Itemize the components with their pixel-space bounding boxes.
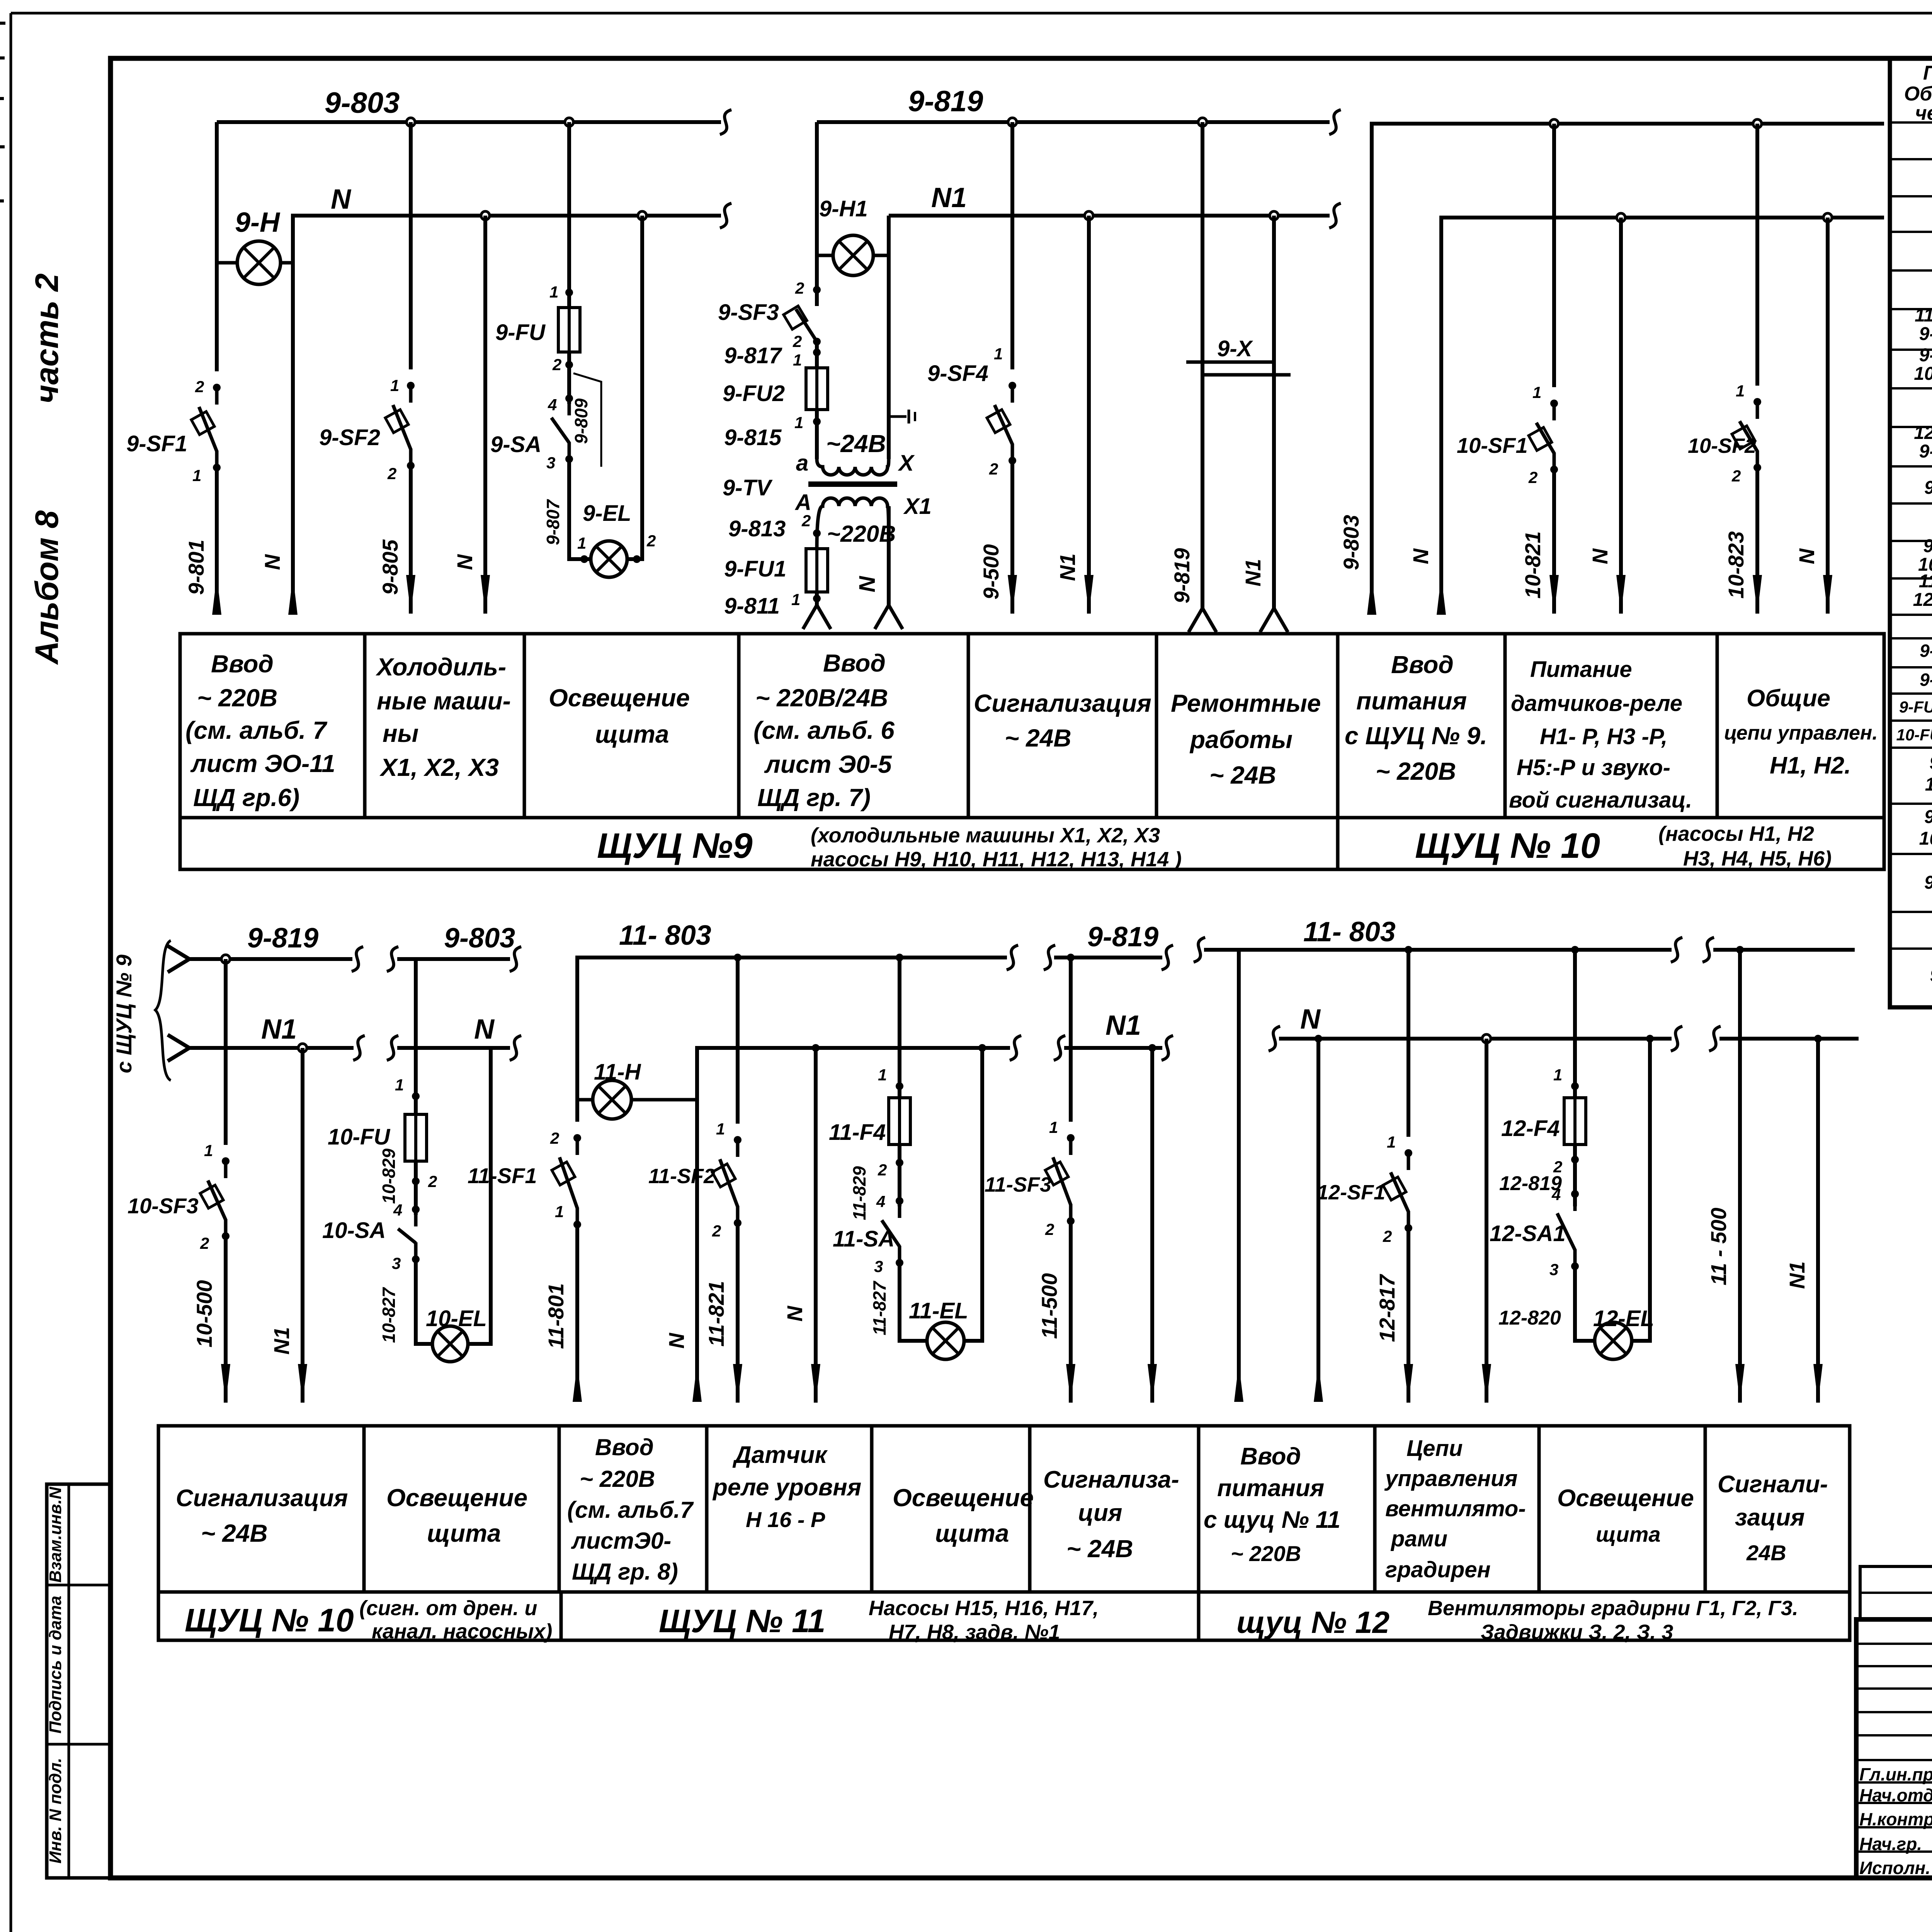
svg-text:3: 3 (392, 1254, 401, 1272)
svg-text:N: N (782, 1305, 807, 1321)
arrow down N2 (481, 575, 490, 614)
component table row line y=1105 (1890, 426, 1932, 428)
wire 12-817 to arrow (1406, 1228, 1410, 1403)
svg-text:~220В: ~220В (827, 521, 896, 547)
svg-text:10-SA: 10-SA (322, 1218, 386, 1243)
svg-text:~ 24В: ~ 24В (1209, 761, 1276, 789)
svg-text:10-SF2: 10-SF2 (1688, 434, 1756, 457)
svg-text:10-FU: 10-FU (328, 1124, 391, 1150)
component table row line y=1303 (1890, 502, 1932, 505)
svg-text:2: 2 (878, 1161, 887, 1179)
wire F4 to SA 12 (1573, 1145, 1577, 1206)
component table row line y=1795 (1890, 692, 1932, 695)
wire FU2 to winding (815, 410, 819, 459)
wire feed 11-803 drop (1237, 950, 1241, 1401)
pin dot 9-FU1 top (813, 529, 821, 537)
bus N (shchuc9) (293, 216, 721, 263)
wire 9-500 drop (1010, 122, 1014, 369)
node on bus at 4548 (1753, 119, 1762, 128)
svg-text:1: 1 (793, 351, 802, 369)
wire 10-500 to arrow (224, 1236, 228, 1403)
svg-text:11-SF3: 11-SF3 (985, 1173, 1051, 1196)
svg-text:ЩД гр.6): ЩД гр.6) (193, 784, 299, 811)
svg-text:9-ЕL: 9-ЕL (583, 501, 631, 526)
component table row line y=2210 (1890, 853, 1932, 855)
title block left row y=4555 (1856, 1759, 1932, 1761)
svg-text:питания: питания (1217, 1475, 1324, 1502)
wire N1 row2 drop (301, 1048, 304, 1403)
svg-text:N: N (1300, 1004, 1321, 1035)
svg-text:ЩУЦ №9: ЩУЦ №9 (597, 826, 753, 866)
node 11-803 at 2328 (896, 954, 903, 961)
lower table divider x=2256 (870, 1426, 874, 1592)
bus 9-819 row2 (189, 957, 352, 961)
svg-text:канал. насосных): канал. насосных) (372, 1620, 552, 1643)
arrow down 11-500 stub (1735, 1364, 1745, 1403)
svg-text:3: 3 (874, 1257, 883, 1276)
svg-text:9-FU2: 9-FU2 (723, 381, 785, 406)
svg-text:2: 2 (550, 1129, 559, 1147)
fork 9-819 bottom (1189, 608, 1202, 632)
svg-text:Задвижки З. 2, З. 3: Задвижки З. 2, З. 3 (1481, 1621, 1673, 1644)
upper table divider x=3462 (1336, 634, 1340, 818)
wire feed N drop (1316, 1039, 1320, 1401)
svg-text:1: 1 (716, 1120, 725, 1138)
svg-text:(насосы Н1, Н2: (насосы Н1, Н2 (1658, 822, 1814, 845)
lower table divider x=3558 (1373, 1426, 1377, 1592)
wire to lamp 11-EL (900, 1263, 927, 1341)
svg-text:9-500: 9-500 (979, 544, 1003, 599)
svg-text:(сигн. от дрен. и: (сигн. от дрен. и (359, 1597, 537, 1620)
bus N row2e (1279, 1037, 1672, 1041)
pin dot 12-SA1 4 (1571, 1190, 1579, 1198)
svg-text:Цепи: Цепи (1406, 1436, 1463, 1461)
svg-text:1: 1 (794, 413, 803, 432)
transformer 9-TV primary winding (817, 498, 889, 549)
node on N at 1256 (481, 211, 490, 220)
component table row line y=1935 (1890, 747, 1932, 749)
fork from SHCHUC9 bottom (168, 1035, 189, 1048)
bus 9-803 row2 (397, 957, 510, 961)
wire 9-805 to arrow (409, 466, 413, 614)
upper label table frame (180, 634, 1884, 869)
svg-text:N1: N1 (1241, 559, 1265, 587)
wire 9-FU top (567, 122, 571, 308)
svg-text:1: 1 (1532, 383, 1541, 401)
svg-text:Н3, Н4, Н5, Н6): Н3, Н4, Н5, Н6) (1683, 847, 1832, 870)
svg-text:с ЩУЦ № 9: с ЩУЦ № 9 (112, 954, 136, 1073)
svg-text:Освещение: Освещение (893, 1484, 1034, 1512)
fuse 9-FU (558, 308, 580, 352)
wire 11-500 to arrow (1069, 1221, 1073, 1403)
svg-text:10-SF1: 10-SF1 (1457, 433, 1528, 457)
pin dot 9-FU 1 (565, 289, 573, 296)
upper table divider x=4444 (1716, 634, 1719, 818)
svg-text:9-811: 9-811 (724, 594, 780, 619)
component table row line y=1400 (1890, 540, 1932, 542)
svg-text:12-820: 12-820 (1498, 1307, 1561, 1329)
wire 9-801 drop (215, 122, 219, 371)
transformer 9-TV core (808, 481, 897, 487)
bus 9-819 (817, 120, 1330, 124)
svg-text:9-SF2: 9-SF2 (1919, 441, 1932, 462)
svg-text:Н7, Н8, задв. №1: Н7, Н8, задв. №1 (889, 1621, 1060, 1644)
lower table divider x=1447 (558, 1426, 561, 1592)
svg-text:2: 2 (646, 532, 656, 550)
switch 9-SA (568, 398, 571, 415)
component table row line y=1652 (1890, 637, 1932, 639)
component table row line y=1207 (1890, 465, 1932, 468)
svg-text:9-801: 9-801 (184, 539, 208, 595)
wire 11-801 to arrow (575, 1225, 579, 1401)
svg-text:a: a (796, 451, 808, 476)
title block left row y=4431 (1856, 1711, 1932, 1713)
svg-text:1: 1 (192, 466, 201, 485)
wire 10-821 to arrow (1552, 469, 1556, 614)
arrow up feed N (1314, 1363, 1323, 1402)
pin dot 12-F4 2 (1571, 1156, 1579, 1163)
svg-text:11- 803: 11- 803 (619, 920, 711, 951)
svg-text:вентилято-: вентилято- (1385, 1496, 1526, 1521)
pin dot 10-FU 1 (412, 1092, 420, 1100)
breaker 11-SF2 (736, 1139, 740, 1157)
svg-text:Нач.отд.: Нач.отд. (1859, 1785, 1932, 1805)
wire 9-801 to arrow (215, 468, 219, 611)
bus stub N1 (1719, 1037, 1859, 1041)
pin dot 9-SF3 bottom (813, 338, 821, 345)
svg-text:с щуц № 11: с щуц № 11 (1204, 1507, 1340, 1533)
svg-text:9-FU,11-FU,: 9-FU,11-FU, (1899, 698, 1932, 716)
arrow down N1 col5 (1084, 575, 1094, 614)
wire N2 drop (483, 216, 487, 614)
wire 9-805 drop (409, 122, 413, 369)
arrow down N1 row2 (298, 1364, 307, 1403)
lower table divider x=1829 (705, 1426, 709, 1592)
svg-text:9-SF1: 9-SF1 (1919, 324, 1932, 344)
svg-text:9-TV: 9-TV (1924, 478, 1932, 498)
lower table strip divider 2 (1197, 1592, 1201, 1640)
breaker 11-SF1 (576, 1137, 579, 1155)
pin dot 12-F4 1 (1571, 1082, 1579, 1090)
component table row line y=600 (1890, 231, 1932, 233)
svg-text:9-SF4: 9-SF4 (927, 361, 988, 386)
svg-text:Н1- Р, Н3 -Р,: Н1- Р, Н3 -Р, (1540, 724, 1667, 749)
title block left row y=4312 (1856, 1665, 1932, 1667)
component table row line y=1727 (1890, 666, 1932, 668)
wire to lamp 9-EL (569, 459, 591, 559)
svg-text:ные маши-: ные маши- (377, 687, 511, 715)
lower table strip divider 1 (560, 1592, 563, 1640)
lower label table frame (158, 1426, 1850, 1640)
svg-text:9-ЕL: 9-ЕL (1924, 807, 1932, 827)
svg-text:9-SA: 9-SA (490, 432, 541, 457)
svg-text:11-SA: 11-SA (833, 1226, 895, 1252)
upper table divider x=3895 (1503, 634, 1507, 818)
svg-text:9-817: 9-817 (724, 343, 782, 368)
svg-text:11-829: 11-829 (849, 1166, 869, 1220)
svg-text:Освещение: Освещение (1557, 1485, 1694, 1512)
svg-text:12-SF1: 12-SF1 (1914, 423, 1932, 443)
transformer 9-TV secondary winding (817, 459, 889, 475)
wire lamp10 to N (468, 1048, 491, 1344)
svg-text:1: 1 (1387, 1133, 1396, 1151)
bus 11-803 row2 (577, 957, 1007, 1100)
arrow down N col9 (1823, 575, 1832, 614)
svg-text:2: 2 (200, 1234, 209, 1252)
node on bus at 4022 (1550, 119, 1558, 128)
upper table divider x=2506 (967, 634, 970, 818)
svg-text:1: 1 (395, 1076, 404, 1094)
breaker 9-SF3 blade (815, 290, 819, 298)
arrow down 11-500 (1066, 1364, 1075, 1403)
pin dot 9-FU2 bottom (813, 418, 821, 425)
svg-text:12-SF1: 12-SF1 (1317, 1181, 1385, 1204)
svg-text:10-EL: 10-EL (426, 1306, 487, 1331)
page border (11, 12, 1932, 15)
wire lamp to N (627, 216, 642, 559)
svg-text:9-SF3: 9-SF3 (718, 300, 779, 325)
wire 10-500 drop (224, 959, 228, 1145)
svg-text:Н1, Н2.: Н1, Н2. (1770, 752, 1851, 779)
svg-text:11- 803: 11- 803 (1303, 917, 1396, 947)
arrow down 10-823 (1753, 575, 1762, 614)
upper table strip divider (1336, 818, 1340, 869)
lamp 10-EL (432, 1326, 468, 1362)
component table row line y=700 (1890, 269, 1932, 272)
node 11-803 at 1909 (734, 954, 742, 961)
fuse 12-F4 (1564, 1098, 1586, 1145)
node N1 row2 (298, 1044, 307, 1052)
svg-text:N1: N1 (261, 1014, 297, 1045)
lamp 11-EL (927, 1322, 964, 1359)
svg-text:N1: N1 (1105, 1010, 1141, 1041)
svg-text:11-827: 11-827 (869, 1281, 889, 1335)
fork N1 bottom (1260, 608, 1274, 632)
svg-text:Холодиль-: Холодиль- (376, 653, 506, 681)
svg-text:1: 1 (1553, 1066, 1562, 1084)
svg-text:N: N (1408, 548, 1433, 564)
svg-text:9-H: 9-H (235, 207, 281, 238)
svg-text:~ 24В: ~ 24В (1005, 724, 1071, 752)
svg-text:Подпись и дата: Подпись и дата (46, 1596, 65, 1734)
svg-text:3: 3 (546, 454, 555, 472)
wire 9-H1 to SF3 (815, 255, 819, 306)
svg-text:9-FU2: 9-FU2 (1920, 670, 1932, 690)
svg-text:1: 1 (390, 376, 399, 395)
wire 12-817 drop (1406, 950, 1410, 1137)
wire 11-821 drop (736, 957, 740, 1124)
node on 9-803 at 1473 (565, 118, 573, 126)
breaker 9-SF2 (409, 385, 413, 403)
svg-text:Гл.ин.пр: Гл.ин.пр (1859, 1764, 1932, 1784)
svg-text:9-SF1: 9-SF1 (126, 431, 187, 456)
svg-text:10-SF1: 10-SF1 (1914, 364, 1932, 384)
small box above title block (1860, 1566, 1932, 1619)
breaker 10-SF2 (1756, 401, 1759, 419)
wire lamp12 to N (1632, 1039, 1650, 1341)
bus N row2 (397, 1046, 510, 1050)
wire 10-FU drop (414, 959, 418, 1114)
svg-text:N1: N1 (1785, 1261, 1809, 1289)
arrow up 9-803 right (1367, 576, 1376, 615)
svg-text:ЩУЦ № 10: ЩУЦ № 10 (1415, 826, 1600, 866)
svg-text:X: X (898, 451, 915, 476)
node on N1 at 2818 (1085, 211, 1093, 220)
upper table divider x=944 (363, 634, 367, 818)
upper table divider x=1912 (737, 634, 741, 818)
svg-text:9-803: 9-803 (1339, 515, 1363, 570)
lamp 9-EL (591, 541, 627, 577)
svg-text:Сигнализация: Сигнализация (974, 689, 1151, 717)
bus 11-803 row2e (1204, 948, 1672, 952)
breaker 11-SF3 (1069, 1137, 1073, 1155)
node 11-803e 4076 (1571, 946, 1579, 954)
svg-text:датчиков-реле: датчиков-реле (1511, 691, 1682, 716)
arrow down Ne (1482, 1364, 1491, 1403)
svg-text:~ 220В: ~ 220В (1376, 757, 1456, 785)
wire 10-823 drop (1755, 124, 1759, 386)
svg-text:N1: N1 (931, 182, 967, 213)
bus N1 row2 (189, 1046, 354, 1050)
node 11-803e 3645 (1405, 946, 1412, 954)
lamp 9-H1 (833, 235, 873, 276)
svg-text:9-H1: 9-H1 (819, 196, 868, 221)
node Ne 4270 (1646, 1035, 1654, 1043)
node on N at 1662 (638, 211, 646, 220)
svg-text:(см. альб. 7: (см. альб. 7 (185, 716, 328, 744)
svg-text:9-Х: 9-Х (1930, 965, 1932, 986)
svg-text:N: N (855, 576, 880, 592)
svg-text:1: 1 (204, 1141, 213, 1160)
wire lamp11 to N (964, 1048, 982, 1341)
upper table divider x=1357 (523, 634, 526, 818)
scan edge marks (0, 22, 5, 25)
pin dot 10-FU 2 (412, 1177, 420, 1185)
fuse 11-F4 (889, 1098, 910, 1145)
pin dot 9-FU2 top (813, 349, 821, 356)
svg-text:управления: управления (1384, 1466, 1518, 1491)
lower table divider x=3983 (1537, 1426, 1541, 1592)
svg-text:~ 220В/24В: ~ 220В/24В (755, 684, 888, 712)
wire 9-500 to arrow (1010, 461, 1014, 614)
svg-text:11-SF1: 11-SF1 (468, 1163, 537, 1188)
wire Ne drop (1485, 1039, 1488, 1403)
svg-text:9-803: 9-803 (325, 87, 400, 119)
svg-text:9-TV: 9-TV (723, 475, 773, 500)
title block left row y=4613 (1856, 1781, 1932, 1784)
svg-text:10-823: 10-823 (1724, 531, 1748, 599)
component table row line y=1005 (1890, 387, 1932, 389)
arrow up N right (1437, 576, 1446, 615)
svg-text:1: 1 (555, 1202, 564, 1221)
svg-text:9-FU1: 9-FU1 (1920, 641, 1932, 661)
wire FU to SA 10 (414, 1161, 418, 1215)
svg-text:щита: щита (935, 1519, 1009, 1547)
svg-text:2: 2 (793, 332, 802, 350)
switch 10-SA (414, 1209, 418, 1226)
svg-text:10-829: 10-829 (379, 1148, 399, 1204)
svg-text:10-827: 10-827 (379, 1287, 399, 1343)
lamp 12-EL (1595, 1322, 1632, 1359)
svg-text:Х1, Х2, Х3: Х1, Х2, Х3 (379, 753, 499, 781)
arrow down N1 stub (1813, 1364, 1823, 1403)
svg-text:11-500: 11-500 (1037, 1273, 1061, 1339)
svg-text:щуц № 12: щуц № 12 (1236, 1605, 1389, 1639)
pin dot 11-SA 4 (896, 1197, 903, 1205)
svg-text:зация: зация (1735, 1504, 1805, 1531)
component table row line y=412 (1890, 158, 1932, 160)
svg-text:2: 2 (1045, 1220, 1054, 1238)
svg-text:3: 3 (1549, 1260, 1558, 1279)
bus 9-819 row2d (1054, 956, 1162, 959)
pin dot 9-FU1 bottom (813, 595, 821, 602)
arrow down 10-821 (1549, 575, 1559, 614)
component table row line y=2360 (1890, 911, 1932, 913)
bus stub 11-500 (1713, 948, 1855, 952)
bus N row2c (697, 1048, 1010, 1100)
svg-text:11-801: 11-801 (544, 1283, 568, 1349)
svg-text:Н 16 - Р: Н 16 - Р (746, 1507, 825, 1532)
node on 9-819 at 3112 (1198, 118, 1207, 126)
arrow up 11-801 (573, 1363, 582, 1402)
component table row line y=317 (1890, 121, 1932, 124)
svg-text:11 - 500: 11 - 500 (1706, 1207, 1731, 1285)
bus N1 (shchuc9) (889, 214, 1330, 218)
node N at 2111 (812, 1044, 820, 1052)
fork N1 (875, 605, 889, 629)
component table row line y=2080 (1890, 803, 1932, 805)
wire fuse to SA (567, 352, 571, 404)
component table row line y=1497 (1890, 577, 1932, 580)
svg-text:ЩУЦ № 11: ЩУЦ № 11 (659, 1603, 825, 1639)
svg-text:10-SF3: 10-SF3 (128, 1194, 199, 1218)
svg-text:Ремонтные: Ремонтные (1171, 689, 1321, 717)
svg-text:с ЩУЦ № 9.: с ЩУЦ № 9. (1345, 722, 1487, 750)
svg-text:Поз.: Поз. (1923, 62, 1932, 84)
arrow down 11-821 (733, 1364, 742, 1403)
svg-text:Ввод: Ввод (211, 650, 274, 678)
component table frame (1890, 58, 1932, 1007)
svg-text:градирен: градирен (1385, 1557, 1491, 1582)
svg-text:Общие: Общие (1747, 685, 1830, 712)
wire to fork left (815, 592, 819, 605)
svg-text:щита: щита (427, 1519, 501, 1547)
arrow down N col8 (1616, 575, 1626, 614)
svg-text:12-817: 12-817 (1375, 1274, 1399, 1342)
svg-text:12-F4: 12-F4 (1501, 1116, 1560, 1141)
socket 9-X (1186, 361, 1274, 364)
svg-text:9-803: 9-803 (444, 923, 515, 954)
wire N1 down to fork (887, 506, 891, 605)
svg-text:9-819: 9-819 (908, 85, 983, 118)
wire N col8 drop (1619, 218, 1623, 614)
wire N1 corner drop (887, 216, 891, 255)
svg-text:11-SF2: 11-SF2 (648, 1165, 715, 1188)
svg-text:Сигнали-: Сигнали- (1718, 1471, 1828, 1498)
svg-text:лист Э0-5: лист Э0-5 (764, 750, 892, 778)
svg-text:9-Н: 9-Н (1929, 753, 1932, 773)
arrow down 12-817 (1404, 1364, 1413, 1403)
svg-text:24В: 24В (1746, 1541, 1786, 1565)
svg-text:Исполн.: Исполн. (1859, 1858, 1930, 1878)
breaker 12-SF1 (1407, 1152, 1410, 1170)
svg-text:9-819: 9-819 (1170, 548, 1194, 603)
wire N c drop (695, 1100, 699, 1401)
wire N1 to fork (1272, 216, 1276, 608)
lamp 11-H (593, 1080, 631, 1119)
svg-text:ЩД гр. 7): ЩД гр. 7) (757, 784, 871, 811)
title block left row y=4254 (1856, 1643, 1932, 1645)
